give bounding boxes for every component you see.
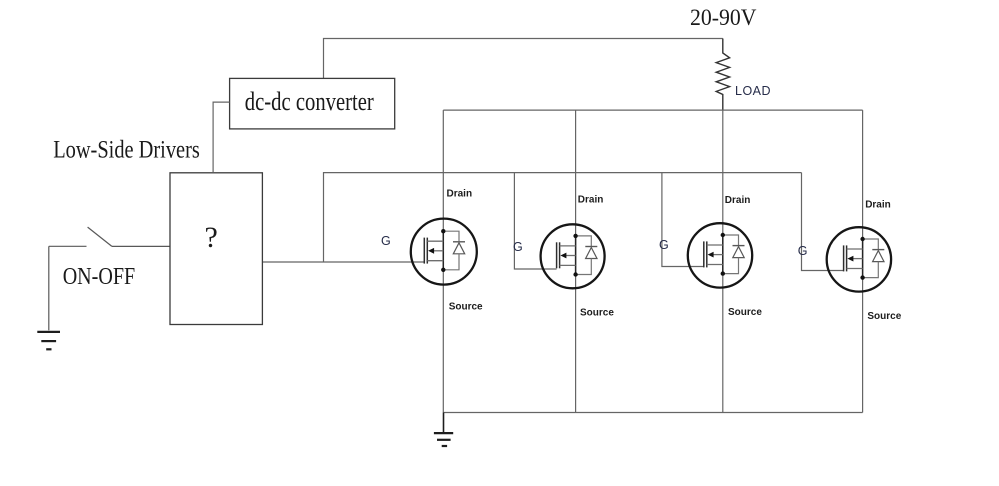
svg-text:Low-Side Drivers: Low-Side Drivers xyxy=(53,135,200,164)
svg-text:LOAD: LOAD xyxy=(735,84,771,98)
driver box U1 xyxy=(170,173,262,325)
wire: dc-dc converter to driver box xyxy=(213,102,230,173)
svg-text:ON-OFF: ON-OFF xyxy=(63,263,136,290)
dc-dc converter box xyxy=(230,78,395,128)
wire: Q3 gate drop xyxy=(662,173,704,267)
svg-text:?: ? xyxy=(205,221,218,254)
ground: at switch xyxy=(37,332,60,349)
wire: Q1 drain-source vertical xyxy=(442,110,444,412)
svg-text:Source: Source xyxy=(867,311,901,322)
wire: top supply rail from dc-dc converter to resistor xyxy=(324,39,723,79)
wire: drain bus xyxy=(443,109,862,111)
svg-text:G: G xyxy=(659,238,669,252)
svg-text:Source: Source xyxy=(728,307,762,318)
svg-text:Drain: Drain xyxy=(447,188,473,199)
MOSFET Q3 xyxy=(688,223,752,287)
svg-text:G: G xyxy=(513,240,523,254)
svg-text:G: G xyxy=(381,234,391,248)
wire: Q4 gate drop xyxy=(802,173,844,271)
svg-text:Drain: Drain xyxy=(865,200,891,211)
svg-text:20-90V: 20-90V xyxy=(690,5,757,30)
wire: source bus xyxy=(443,412,862,414)
wire: Q2 gate drop xyxy=(514,173,556,269)
wire: Q2 drain-source vertical xyxy=(575,110,577,412)
wire: Q3 drain-source vertical xyxy=(722,110,724,412)
resistor LOAD xyxy=(716,39,729,111)
svg-text:dc-dc converter: dc-dc converter xyxy=(245,87,374,116)
MOSFET Q2 xyxy=(541,224,605,288)
svg-text:Drain: Drain xyxy=(725,195,751,206)
MOSFET Q1 xyxy=(411,219,477,285)
svg-text:Source: Source xyxy=(580,307,614,318)
switch S1 (ON-OFF) xyxy=(49,227,170,246)
wire: gate bus with riser xyxy=(324,173,802,262)
svg-text:Drain: Drain xyxy=(578,195,604,206)
wire: switch to ground xyxy=(48,246,50,330)
svg-text:Source: Source xyxy=(449,301,483,312)
wire: driver output to Q1 gate xyxy=(262,261,424,263)
svg-text:G: G xyxy=(798,244,808,258)
MOSFET Q4 xyxy=(827,227,891,291)
wire: Q4 drain-source vertical xyxy=(862,110,864,412)
ground: main xyxy=(434,413,453,447)
